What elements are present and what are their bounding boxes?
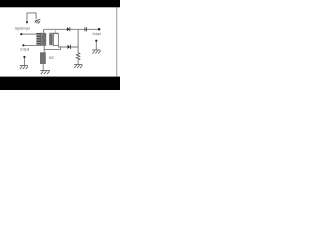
diode D1 <box>67 27 70 31</box>
wire resistor to ground <box>77 60 79 64</box>
antenna loop wire (top-left Pi shape) <box>27 13 36 23</box>
ground resistor <box>74 64 82 68</box>
ground NTC <box>40 71 50 75</box>
svg-text:Signal input: Signal input <box>15 27 30 31</box>
wire junction down from rail <box>77 29 79 52</box>
chassis ground (loop, diagonal style) <box>35 19 41 23</box>
wire LD ground <box>23 58 25 65</box>
svg-text:NTC: NTC <box>49 56 55 60</box>
capacitor C1 <box>84 27 87 31</box>
wire output ground <box>95 42 97 50</box>
letterbox bottom bar <box>0 77 120 90</box>
diode D2 <box>68 45 70 49</box>
resistor R1 zigzag <box>76 53 80 61</box>
wire secondary bottom down to NTC <box>43 45 45 52</box>
wire secondary top to rail <box>43 29 45 33</box>
letterbox top bar <box>0 0 120 7</box>
svg-text:LD input: LD input <box>20 47 29 51</box>
right window frame line <box>116 7 118 76</box>
transformer T1 secondary winding <box>42 33 46 45</box>
coil L2 body box <box>53 34 58 46</box>
wire stub rail to coil L2 <box>54 29 56 33</box>
LD input terminal <box>22 44 24 46</box>
wire top rail <box>44 28 99 30</box>
output ground terminal dot <box>95 40 97 42</box>
svg-text:Output: Output <box>92 32 101 36</box>
wire NTC to ground <box>42 64 44 70</box>
terminal square at loop bottom <box>26 21 28 23</box>
wire coil box corner down <box>57 46 59 47</box>
LD ground terminal dot <box>23 56 25 58</box>
wire LD input to transformer bottom <box>25 44 47 46</box>
ground output <box>92 50 100 54</box>
coil L2 top edge wire <box>49 32 58 34</box>
ground LD input <box>20 66 28 70</box>
transformer T1 primary winding <box>36 33 40 45</box>
white background <box>0 0 120 90</box>
signal input terminal <box>20 33 22 35</box>
coil L2 winding <box>49 34 53 45</box>
transformer core <box>40 33 42 46</box>
thermistor NTC body <box>40 52 46 64</box>
wire NTC tee to lower rail <box>44 47 60 49</box>
wire signal input to transformer <box>22 33 36 35</box>
wire lower rail <box>58 46 78 48</box>
output terminal dot <box>98 28 101 31</box>
